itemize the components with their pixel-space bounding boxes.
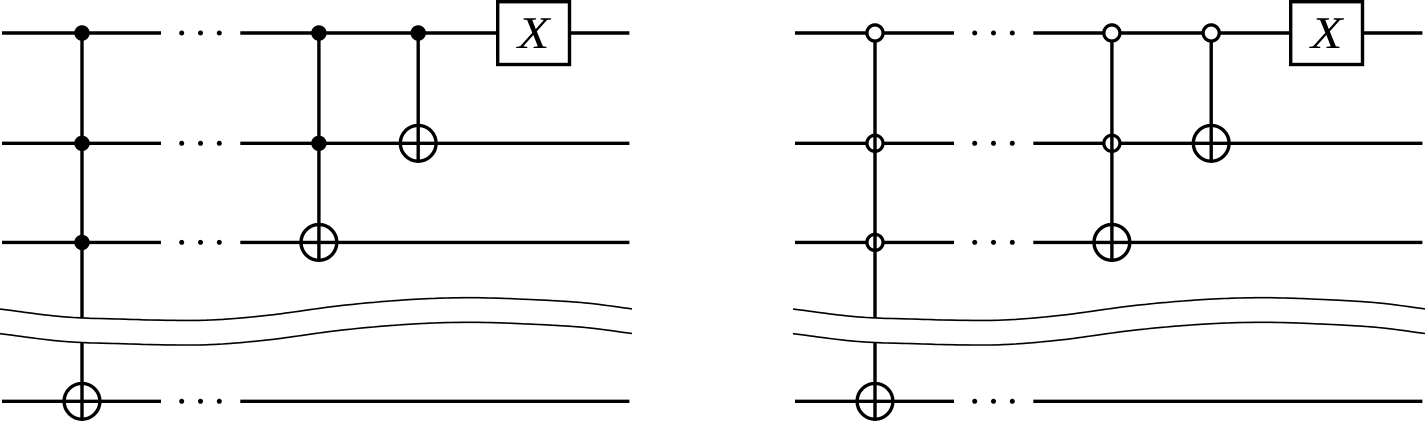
wave break white band (right) xyxy=(793,298,1425,345)
ellipsis dots on q1 right xyxy=(972,31,1015,36)
wire q3 right segment a xyxy=(795,241,954,244)
wire q2 left segment b xyxy=(240,142,629,145)
wire q1 right segment b xyxy=(1033,31,1422,34)
ellipsis dots on q2 left xyxy=(179,141,222,146)
X gate box right xyxy=(1291,2,1363,65)
wave break upper curve (left) xyxy=(0,298,632,321)
wire q1 left segment b xyxy=(240,31,629,34)
control line through open circle right xyxy=(873,133,876,153)
control dot left #5 xyxy=(311,136,326,151)
open control circle right #3 xyxy=(867,234,883,250)
control line column3 left xyxy=(417,33,420,163)
wave break white band (left) xyxy=(0,298,632,345)
control line column3 right xyxy=(1209,33,1212,163)
open control circle right #4 xyxy=(1104,25,1120,41)
CNOT target on q3 left xyxy=(301,225,337,261)
control dot left #4 xyxy=(311,25,326,40)
open control circle right #6 xyxy=(1203,25,1219,41)
wire q2 right segment b xyxy=(1033,142,1422,145)
CNOT target on q3 right xyxy=(1094,225,1130,261)
control line through open circle right xyxy=(873,232,876,252)
ellipsis dots on q1 left xyxy=(179,31,222,36)
wire qn right segment b xyxy=(1033,400,1422,403)
control dot left #2 xyxy=(74,136,89,151)
open control circle right #5 xyxy=(1104,135,1120,151)
wire q2 left segment a xyxy=(2,142,161,145)
wire qn left segment a xyxy=(2,400,161,403)
wire qn left segment b xyxy=(240,400,629,403)
wire qn right segment a xyxy=(795,400,954,403)
ellipsis dots on qn left xyxy=(179,399,222,404)
control dot left #6 xyxy=(411,25,426,40)
CNOT target on qn right xyxy=(857,383,893,419)
X gate label right xyxy=(1309,18,1344,48)
wire q1 left segment a xyxy=(2,31,161,34)
wire q1 right segment a xyxy=(795,31,954,34)
wave break lower curve (right) xyxy=(793,322,1425,345)
CNOT target on qn left xyxy=(64,383,100,419)
control line column1 left xyxy=(80,33,83,421)
ellipsis dots on q3 left xyxy=(179,240,222,245)
wire q2 right segment a xyxy=(795,142,954,145)
wave break lower curve (left) xyxy=(0,322,632,345)
wire q3 left segment b xyxy=(240,241,629,244)
control line column1 right xyxy=(873,33,876,421)
CNOT target on q2 left xyxy=(400,125,436,161)
ellipsis dots on q3 right xyxy=(972,240,1015,245)
wave break upper curve (right) xyxy=(793,298,1425,321)
X gate label left xyxy=(516,18,551,48)
open control circle right #2 xyxy=(867,135,883,151)
ellipsis dots on q2 right xyxy=(972,141,1015,146)
control line column2 right xyxy=(1110,33,1113,262)
control dot left #1 xyxy=(74,25,89,40)
control dot left #3 xyxy=(74,235,89,250)
wire q3 right segment b xyxy=(1033,241,1422,244)
wire q3 left segment a xyxy=(2,241,161,244)
X gate box left xyxy=(498,2,570,65)
ellipsis dots on qn right xyxy=(972,399,1015,404)
open control circle right #1 xyxy=(867,25,883,41)
CNOT target on q2 right xyxy=(1193,125,1229,161)
control line through open circle right xyxy=(1110,133,1113,153)
control line column2 left xyxy=(317,33,320,262)
